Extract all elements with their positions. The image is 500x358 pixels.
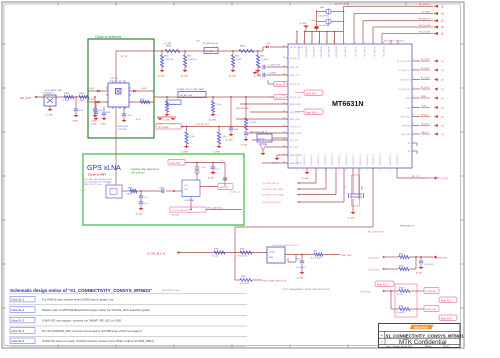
svg-text:A_GND: A_GND: [181, 75, 188, 78]
svg-text:MEDIATEK: MEDIATEK: [414, 325, 428, 329]
svg-text:[1]: [1]: [441, 126, 444, 128]
svg-text:SR02: SR02: [79, 93, 85, 95]
svg-text:6: 6: [296, 41, 297, 43]
svg-text:SR20: SR20: [128, 188, 132, 190]
svg-text:PMU_AVDD28: PMU_AVDD28: [236, 107, 248, 110]
svg-text:A_GND: A_GND: [297, 277, 304, 280]
svg-text:28: 28: [283, 145, 285, 147]
svg-text:[1]: [1]: [441, 14, 444, 16]
svg-text:AVDD18_WF1: AVDD18_WF1: [319, 47, 322, 58]
svg-text:CONN_PWR: CONN_PWR: [170, 163, 181, 165]
svg-text:Note S1-1:: Note S1-1:: [12, 298, 26, 302]
svg-text:(1) GPS_LNA_EN_R: (1) GPS_LNA_EN_R: [172, 209, 190, 212]
svg-text:VCN33_PMU: VCN33_PMU: [425, 309, 436, 311]
svg-text:1_2K_1C: 1_2K_1C: [249, 122, 257, 124]
svg-text:Note S1-3: Note S1-3: [306, 92, 317, 95]
svg-text:PMU_32K B_32K_LP: PMU_32K B_32K_LP: [250, 132, 268, 134]
svg-text:R 0_xxx NC: R 0_xxx NC: [396, 312, 405, 314]
svg-text:SR0x: SR0x: [164, 56, 168, 58]
svg-text:Note S1-5:: Note S1-5:: [12, 339, 26, 343]
svg-text:CONN_TOP_D: CONN_TOP_D: [332, 153, 334, 165]
svg-text:CONN_TOP_D: CONN_TOP_D: [346, 153, 348, 165]
svg-text:WF_RF_2G_5G: WF_RF_2G_5G: [290, 47, 304, 49]
svg-text:WF_RF_2G: WF_RF_2G: [290, 58, 300, 60]
svg-text:SPI_CS: SPI_CS: [412, 176, 419, 178]
svg-text:AVDD18_WF1: AVDD18_WF1: [304, 47, 307, 58]
svg-text:SR26: SR26: [399, 254, 403, 256]
svg-text:SC04 1-8.2P: SC04 1-8.2P: [117, 126, 129, 128]
svg-text:CONN_TOP_D: CONN_TOP_D: [367, 153, 369, 165]
svg-text:A_GND: A_GND: [416, 272, 423, 275]
svg-text:A_GND: A_GND: [348, 217, 355, 220]
svg-text:BT_ANT: BT_ANT: [422, 10, 431, 13]
svg-text:RF_ANT0402_N4: RF_ANT0402_N4: [203, 42, 218, 45]
svg-text:F201: F201: [107, 183, 111, 185]
svg-text:41: 41: [283, 56, 285, 58]
svg-text:WF_RF_2G5: WF_RF_2G5: [290, 97, 301, 99]
svg-text:GPS xLNA: GPS xLNA: [87, 165, 121, 172]
svg-text:C_GND: C_GND: [158, 188, 165, 190]
svg-text:1_1R2_1K: 1_1R2_1K: [188, 59, 197, 61]
svg-text:A_GND: A_GND: [209, 119, 216, 122]
svg-text:CGND: CGND: [100, 124, 106, 126]
svg-text:31: 31: [283, 125, 285, 127]
svg-text:1: 1: [414, 96, 415, 98]
svg-text:CONN_TOP_D: CONN_TOP_D: [304, 153, 306, 165]
svg-text:AVDD_CORE: AVDD_CORE: [290, 132, 302, 135]
svg-text:RS615: RS615: [399, 288, 404, 290]
svg-text:C_xx: C_xx: [144, 203, 148, 205]
svg-text:(1) CONN_TOP_DATA: (1) CONN_TOP_DATA: [262, 194, 284, 197]
svg-text:[1]: [1]: [441, 89, 444, 91]
svg-text:(1) CONN_RST_B: (1) CONN_RST_B: [262, 183, 280, 185]
svg-text:RF_TOP: RF_TOP: [121, 56, 129, 58]
svg-text:[1]: [1]: [441, 61, 444, 63]
svg-text:29: 29: [283, 138, 285, 140]
svg-text:[1]: [1]: [441, 21, 444, 23]
svg-text:GPS_LNA_EN (1): GPS_LNA_EN (1): [207, 206, 223, 209]
svg-text:A_GND: A_GND: [302, 177, 309, 180]
svg-text:CONN_TOP_D: CONN_TOP_D: [318, 153, 320, 165]
svg-text:WF_RF_5G: WF_RF_5G: [276, 85, 286, 87]
svg-text:C_10 uF 0.8: C_10 uF 0.8: [318, 16, 328, 18]
svg-text:PR_GPSIN: PR_GPSIN: [158, 127, 169, 129]
svg-text:If WiFi 5G not support, connec: If WiFi 5G not support, connect pin 34(W…: [42, 319, 122, 323]
svg-text:WF_2G_EN: WF_2G_EN: [419, 31, 431, 33]
svg-text:SR0x: SR0x: [235, 56, 239, 58]
svg-text:5: 5: [374, 42, 375, 44]
svg-text:BT_PCM_IN: BT_PCM_IN: [400, 80, 411, 82]
svg-text:CGND: CGND: [91, 121, 97, 123]
svg-text:30: 30: [283, 131, 285, 133]
svg-text:R 0_xxx 4R: R 0_xxx 4R: [240, 283, 250, 285]
svg-text:SC03: SC03: [106, 112, 110, 114]
svg-text:26: 26: [283, 161, 285, 163]
svg-text:SYS_32K: SYS_32K: [290, 140, 299, 142]
svg-text:L_GND: L_GND: [126, 194, 132, 196]
svg-text:5: 5: [345, 42, 346, 44]
svg-text:Sheet: Sheet: [427, 345, 432, 348]
svg-text:0_0_4R2: 0_0_4R2: [164, 43, 171, 45]
svg-text:CONN_TOP_D: CONN_TOP_D: [373, 153, 375, 165]
svg-text:CONN_TOP_D: CONN_TOP_D: [311, 153, 313, 165]
svg-text:XTAL_PMU: XTAL_PMU: [341, 254, 352, 257]
svg-text:R 0_xxx: R 0_xxx: [212, 256, 218, 258]
svg-text:CONN_TOP_D: CONN_TOP_D: [339, 153, 341, 165]
svg-text:VCN33_WF0: VCN33_WF0: [368, 270, 379, 272]
svg-text:AVDD18_WF1: AVDD18_WF1: [297, 47, 300, 58]
svg-text:[1]: [1]: [441, 117, 444, 119]
svg-text:[1]: [1]: [441, 70, 444, 72]
svg-text:1-8.2P 50V: 1-8.2P 50V: [118, 129, 128, 131]
svg-text:39: 39: [283, 73, 285, 75]
svg-text:SR22: SR22: [240, 249, 245, 251]
svg-text:RA_CONN28_PMU: RA_CONN28_PMU: [368, 231, 384, 234]
svg-text:6: 6: [303, 41, 304, 43]
svg-text:1_0402: 1_0402: [78, 100, 84, 102]
svg-text:AVDD18_ANT: AVDD18_ANT: [335, 3, 349, 6]
svg-text:CGND: CGND: [72, 121, 78, 123]
svg-text:MT6631N: MT6631N: [332, 99, 364, 108]
svg-text:AVDD18_TOP_NC_WExxx: AVDD18_TOP_NC_WExxx: [384, 40, 405, 43]
svg-text:SR01: SR01: [64, 93, 70, 95]
svg-text:C1: C1: [343, 186, 345, 188]
svg-text:VCN33_WF: VCN33_WF: [426, 291, 437, 293]
svg-text:WF_ANT_5G: WF_ANT_5G: [343, 47, 346, 58]
svg-text:LMM TDK: LMM TDK: [110, 78, 119, 80]
svg-text:L_GND: L_GND: [310, 20, 317, 22]
svg-text:WF_RF_2G: WF_RF_2G: [276, 98, 286, 100]
svg-text:1: 1: [414, 115, 415, 117]
svg-text:RF0603_APT_XO: RF0603_APT_XO: [400, 225, 415, 228]
svg-text:Pin 36 (AVDD28_PM) must be con: Pin 36 (AVDD28_PM) must be connected to …: [42, 329, 142, 333]
svg-text:R_C_xxx_4R: R_C_xxx_4R: [311, 258, 322, 260]
svg-text:CONN_TOP_D: CONN_TOP_D: [390, 153, 392, 165]
svg-text:W_Tra: W_Tra: [80, 190, 85, 192]
svg-text:CONN_TOP_D: CONN_TOP_D: [325, 153, 327, 165]
svg-text:C_4.7uF_6.3V: C_4.7uF_6.3V: [268, 65, 281, 67]
svg-text:C_xx: C_xx: [144, 197, 148, 199]
svg-text:GPS_FRM: GPS_FRM: [402, 126, 411, 128]
svg-text:A_GND: A_GND: [158, 75, 165, 78]
svg-text:GPS_RF_IN: GPS_RF_IN: [290, 112, 301, 114]
svg-text:C_100nF: C_100nF: [268, 73, 277, 75]
svg-text:C_1.0F 6.3V: C_1.0F 6.3V: [424, 264, 434, 266]
svg-text:[1]: [1]: [441, 134, 444, 136]
svg-text:1: 1: [414, 87, 415, 89]
svg-text:VCN33_PMU: VCN33_PMU: [435, 258, 448, 260]
svg-text:WF_ANT_5G: WF_ANT_5G: [363, 47, 366, 58]
svg-text:27: 27: [283, 153, 285, 155]
svg-text:AVDD18_WF1: AVDD18_WF1: [334, 47, 337, 58]
svg-text:[1]: [1]: [441, 6, 444, 8]
svg-text:37: 37: [283, 95, 285, 97]
svg-text:SR03: SR03: [166, 46, 172, 48]
svg-text:1: 1: [414, 59, 415, 61]
svg-text:SR0x: SR0x: [187, 56, 191, 58]
svg-text:SR25: SR25: [241, 276, 246, 278]
svg-text:33: 33: [283, 110, 285, 112]
svg-text:SR27: SR27: [399, 266, 403, 268]
svg-text:Note S1-3:: Note S1-3:: [12, 319, 26, 323]
svg-text:SC0x: SC0x: [79, 110, 83, 112]
svg-text:LNA selected: LNA selected: [131, 172, 145, 175]
svg-text:1_0R_x: 1_0R_x: [216, 104, 222, 106]
svg-text:CONN_TOP_D: CONN_TOP_D: [353, 153, 355, 165]
svg-text:AVDD18_WF1: AVDD18_WF1: [327, 47, 330, 58]
svg-text:[1]: [1]: [441, 108, 444, 110]
svg-text:CONN_TOP_D: CONN_TOP_D: [297, 153, 299, 165]
svg-text:CONN_TOP_D: CONN_TOP_D: [360, 153, 362, 165]
svg-text:(A/551/68615 Today: (A/551/68615 Today: [162, 289, 180, 292]
svg-text:Note S1-4:: Note S1-4:: [12, 329, 26, 333]
svg-text:WF_ANT2G: WF_ANT2G: [419, 18, 431, 21]
svg-text:GPS_SYNC: GPS_SYNC: [401, 117, 411, 119]
svg-text:B_ANT: B_ANT: [89, 98, 94, 101]
svg-text:BT_PCM_OUT: BT_PCM_OUT: [398, 89, 411, 91]
svg-text:R 0_xxx: R 0_xxx: [397, 294, 403, 296]
svg-text:SAW_GPS1575_2016: SAW_GPS1575_2016: [84, 183, 102, 186]
svg-text:CON0402 L1: CON0402 L1: [43, 93, 56, 95]
svg-text:A_GND: A_GND: [241, 144, 248, 147]
svg-text:AVDD18_WF: AVDD18_WF: [290, 103, 302, 106]
svg-text:Schematic design notice of "S1: Schematic design notice of "S1_CONNECTIV…: [10, 288, 152, 293]
svg-text:URXD: URXD: [405, 98, 411, 100]
svg-text:MTK Confidential: MTK Confidential: [399, 339, 446, 346]
svg-text:WF_ANT_SW: WF_ANT_SW: [180, 94, 192, 97]
svg-text:0_0402: 0_0402: [63, 100, 69, 102]
svg-text:For RS615 size, please select: For RS615 size, please select 0402 size …: [42, 298, 114, 302]
svg-text:[1]: [1]: [441, 80, 444, 82]
svg-text:1_0R_x: 1_0R_x: [189, 136, 195, 138]
svg-text:A_GND: A_GND: [208, 177, 215, 180]
svg-text:TCXO 26MHz/26MHz? NOTE, R301S/: TCXO 26MHz/26MHz? NOTE, R301S/R301S NC: [282, 289, 330, 291]
svg-text:1: 1: [414, 78, 415, 80]
svg-text:WF_ANT_5G: WF_ANT_5G: [373, 47, 376, 58]
svg-text:Y301 TCXO 26MHZ NTSC YIC: Y301 TCXO 26MHZ NTSC YIC: [272, 245, 299, 247]
svg-text:1: 1: [414, 132, 415, 134]
svg-text:U_GPSLNA: U_GPSLNA: [184, 199, 194, 202]
svg-text:BT_PCM_SYNC: BT_PCM_SYNC: [397, 61, 411, 63]
svg-text:AVDD_RF: AVDD_RF: [290, 66, 299, 69]
svg-text:(1) GPS_BLK_W: (1) GPS_BLK_W: [147, 253, 166, 256]
svg-text:PR_ANT_2G15_BT_ANT_SW1M: PR_ANT_2G15_BT_ANT_SW1M: [177, 88, 204, 91]
svg-text:GPS_RF_IN_R: GPS_RF_IN_R: [196, 124, 210, 126]
svg-text:1_5R6: 1_5R6: [236, 59, 241, 61]
svg-text:RF_0402: RF_0402: [206, 51, 214, 53]
svg-text:6: 6: [318, 41, 319, 43]
svg-text:A_GND: A_GND: [226, 139, 233, 142]
svg-text:6: 6: [326, 41, 327, 43]
svg-text:WF_5G_EN: WF_5G_EN: [419, 25, 431, 27]
svg-text:R_201 0_xxx: R_201 0_xxx: [230, 192, 241, 194]
svg-text:C_x: C_x: [220, 160, 223, 162]
svg-text:CONN_TOP_D: CONN_TOP_D: [397, 153, 399, 165]
svg-text:1_0R_x: 1_0R_x: [221, 136, 227, 138]
svg-text:VCN33_BT0: VCN33_BT0: [368, 258, 379, 260]
svg-text:[1]: [1]: [441, 34, 444, 36]
svg-text:WF_ANT_5G: WF_ANT_5G: [382, 47, 385, 58]
svg-text:6: 6: [311, 41, 312, 43]
svg-text:2R07: 2R07: [313, 251, 317, 253]
svg-text:2R 3C_ANT-3C_ANT: 2R 3C_ANT-3C_ANT: [45, 89, 63, 92]
svg-text:Close to Antenna: Close to Antenna: [95, 35, 121, 39]
svg-text:Close to ANT: Close to ANT: [88, 173, 106, 177]
svg-text:VCN33_WF0: VCN33_WF0: [360, 292, 371, 294]
svg-text:5: 5: [364, 42, 365, 44]
svg-text:If WiFi 5G were no need, VCN33: If WiFi 5G were no need, VCN33 could be …: [42, 339, 154, 343]
svg-text:WF_RF_5G: WF_RF_5G: [290, 84, 300, 86]
svg-text:RA_CONWF_26M_XO (1): RA_CONWF_26M_XO (1): [263, 280, 287, 283]
svg-text:1: 1: [414, 68, 415, 70]
svg-text:1_1R_4K: 1_1R_4K: [261, 59, 269, 61]
svg-text:SC08: SC08: [234, 129, 238, 131]
svg-text:C304: C304: [296, 259, 300, 261]
svg-text:40: 40: [283, 65, 285, 67]
svg-text:C_xx pF 50v: C_xx pF 50v: [296, 267, 306, 269]
svg-text:GPS_OUT: GPS_OUT: [220, 187, 230, 189]
svg-text:SR28: SR28: [399, 306, 403, 308]
svg-text:5: 5: [355, 42, 356, 44]
svg-text:32: 32: [283, 117, 285, 119]
svg-text:R_S_201: R_S_201: [172, 215, 179, 217]
svg-text:Note S1-5: Note S1-5: [441, 317, 452, 320]
svg-text:A_GND: A_GND: [300, 22, 307, 25]
svg-text:42: 42: [283, 45, 285, 47]
svg-text:CONN_TOP_D: CONN_TOP_D: [380, 153, 382, 165]
svg-text:S1_CONNECTIVITY_CONSYS_MT6631: S1_CONNECTIVITY_CONSYS_MT6631: [386, 334, 465, 339]
svg-text:1 of 1: 1 of 1: [445, 346, 450, 348]
svg-text:C_10 uF 10V: C_10 uF 10V: [318, 25, 330, 27]
svg-text:(1) CONN_TCK_DATA: (1) CONN_TCK_DATA: [262, 188, 284, 191]
svg-text:A_GND: A_GND: [163, 119, 170, 122]
svg-text:X301: X301: [360, 186, 362, 190]
svg-text:Note S1-4: Note S1-4: [306, 111, 317, 114]
svg-text:SR24: SR24: [214, 249, 219, 251]
svg-text:A_ANT: A_ANT: [89, 87, 94, 90]
svg-text:Please refer to MT6762 Baseban: Please refer to MT6762 Baseband design n…: [42, 308, 150, 312]
svg-text:BT_PCM_CLK: BT_PCM_CLK: [399, 70, 412, 72]
svg-text:AVDD_TOP: AVDD_TOP: [290, 74, 300, 77]
svg-text:JTAG_TMS: JTAG_TMS: [401, 133, 411, 136]
svg-text:R 0_xxx NC: R 0_xxx NC: [238, 256, 248, 258]
svg-text:26M: 26M: [269, 257, 273, 259]
svg-text:WF_ANT: WF_ANT: [20, 96, 31, 100]
svg-text:C_ANT: C_ANT: [141, 87, 147, 90]
svg-text:WF_ANT5G: WF_ANT5G: [419, 3, 431, 6]
svg-text:1: 1: [414, 106, 415, 108]
svg-text:SPI_CS [1]: SPI_CS [1]: [437, 178, 448, 180]
svg-text:1_R2_50V: 1_R2_50V: [165, 59, 174, 61]
svg-text:A_GND: A_GND: [229, 75, 236, 78]
svg-text:(1) CONN_HRST_B: (1) CONN_HRST_B: [262, 202, 281, 204]
svg-text:1: 1: [414, 124, 415, 126]
svg-text:WF_ANT_5G: WF_ANT_5G: [354, 47, 357, 58]
svg-text:RTC_32K: RTC_32K: [290, 147, 299, 149]
svg-text:38: 38: [283, 82, 285, 84]
svg-text:SC0x: SC0x: [98, 110, 102, 112]
svg-text:MUR: MUR: [196, 41, 201, 43]
svg-text:AVDD18_WF1: AVDD18_WF1: [312, 47, 315, 58]
svg-text:SR05: SR05: [140, 99, 144, 101]
svg-text:E_GND: E_GND: [46, 114, 53, 116]
svg-text:Note S1-2:: Note S1-2:: [12, 308, 26, 312]
svg-text:Date:: Date:: [387, 345, 392, 348]
svg-text:SR06: SR06: [240, 46, 246, 48]
svg-text:A_GND: A_GND: [136, 213, 143, 216]
svg-text:2_4R7: 2_4R7: [265, 43, 270, 45]
svg-text:6: 6: [333, 41, 334, 43]
svg-text:RF_x: RF_x: [128, 115, 132, 117]
svg-text:D201 TDK_DPX_BF: D201 TDK_DPX_BF: [109, 81, 126, 83]
svg-text:Thursday, May 30, 2019: Thursday, May 30, 2019: [393, 346, 412, 348]
svg-text:AVDD_GPS: AVDD_GPS: [290, 118, 300, 121]
svg-text:[1]: [1]: [441, 98, 444, 100]
svg-text:GPS_RF_1N: GPS_RF_1N: [290, 127, 301, 129]
svg-text:L_xx1: L_xx1: [201, 167, 205, 169]
svg-text:A_GND: A_GND: [214, 151, 221, 154]
svg-text:TCXO: TCXO: [269, 252, 275, 254]
svg-text:SR0x: SR0x: [260, 56, 264, 58]
svg-text:Note S1-1: Note S1-1: [377, 283, 388, 286]
svg-text:35: 35: [283, 102, 285, 104]
svg-text:CGND: CGND: [91, 124, 97, 126]
svg-text:Note S1-2: Note S1-2: [441, 299, 452, 302]
svg-text:L301: L301: [320, 7, 324, 9]
svg-text:A_GND: A_GND: [182, 151, 189, 154]
svg-text:[1]: [1]: [441, 27, 444, 29]
svg-text:matching value depends on: matching value depends on: [131, 168, 160, 171]
svg-text:UTXD: UTXD: [406, 108, 412, 110]
svg-text:Title: Title: [380, 334, 383, 337]
svg-text:32K_IN: 32K_IN: [258, 139, 265, 141]
svg-text:C_xx: C_xx: [216, 169, 220, 171]
